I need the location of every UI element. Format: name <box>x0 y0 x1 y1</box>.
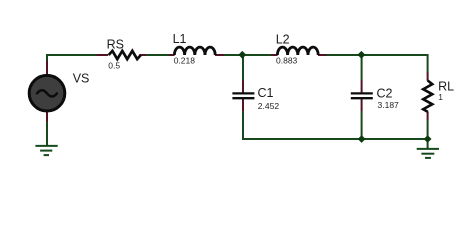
svg-text:0.5: 0.5 <box>108 61 120 71</box>
svg-text:0.883: 0.883 <box>276 56 298 66</box>
svg-text:VS: VS <box>73 71 90 85</box>
svg-text:1: 1 <box>438 92 443 102</box>
svg-text:RS: RS <box>107 37 124 51</box>
svg-text:C2: C2 <box>377 86 393 100</box>
svg-text:L1: L1 <box>173 32 187 46</box>
svg-text:L2: L2 <box>276 32 290 46</box>
svg-text:0.218: 0.218 <box>174 55 196 65</box>
svg-text:2.452: 2.452 <box>258 101 280 111</box>
svg-text:3.187: 3.187 <box>378 100 400 110</box>
svg-text:C1: C1 <box>258 86 274 100</box>
